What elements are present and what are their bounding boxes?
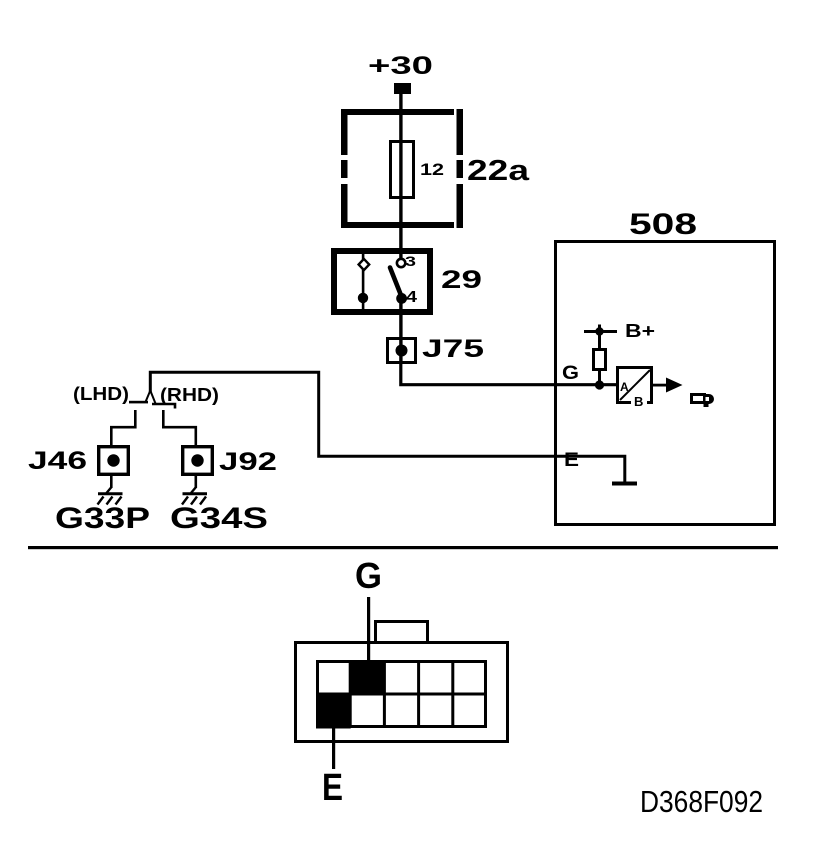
svg-text:E: E [322,767,343,809]
svg-text:B: B [634,394,643,409]
wire J46 to ground G33P [110,476,113,488]
svg-text:E: E [564,450,579,471]
connector J92 box [183,447,213,475]
output arrow [666,378,683,393]
fuse box 22a dashed border left [341,109,348,228]
sensor box U (fuel gauge unit) [618,368,652,403]
pin E filled cell [316,694,351,729]
fuse box 22a dashed border bottom [341,222,463,228]
svg-text:A: A [620,380,629,394]
svg-text:J92: J92 [219,448,277,476]
wire through J75 [399,339,402,363]
svg-text:J75: J75 [422,335,484,363]
switch contact 4 dot [396,293,407,304]
sensor label B knockout [631,395,647,406]
ground bar in 508 [612,482,637,486]
ground G33P symbol [98,487,123,505]
node G junction dot [595,380,604,389]
svg-text:3: 3 [405,253,416,269]
connector body [296,643,508,742]
svg-text:(LHD): (LHD) [73,384,129,404]
sensor diagonal arrow [620,370,650,400]
switch contact 3 circle [397,259,405,267]
connector J75 box [388,339,416,363]
svg-text:G: G [562,363,579,384]
svg-text:12: 12 [420,160,444,179]
sensor output wire [651,384,668,387]
B+ terminal dot [595,327,603,335]
RHD underline with hook [152,404,175,409]
svg-text:G34S: G34S [170,502,268,535]
ground G34S symbol [182,487,207,505]
RHD branch wire [163,410,196,446]
wire J92 to ground G34S [195,476,198,488]
connector J46 box [99,447,129,475]
switch left contact dot [358,293,368,303]
caret LHD/RHD selector [146,391,156,404]
wire E net: caret up, across, down, into 508 [150,372,625,482]
switch box 29 [334,251,430,312]
wire contact 4 to J75 [399,303,402,339]
switch blade 3-4 [390,268,402,298]
svg-text:+30: +30 [368,52,433,80]
svg-text:D368F092: D368F092 [640,784,763,819]
svg-text:J46: J46 [28,447,87,475]
svg-text:22a: 22a [467,155,530,187]
connector tab [376,622,428,643]
battery terminal square [394,83,411,94]
svg-text:G33P: G33P [55,502,150,535]
B+ rail wire [584,330,617,333]
svg-text:29: 29 [441,266,482,294]
connector J75 dot [396,345,408,357]
LHD underline [129,401,148,404]
pin G filled cell [350,660,385,695]
connector J92 dot [191,454,203,466]
pin grid [317,661,486,727]
LHD branch wire [111,410,135,446]
fuse box 22a dashed border right [457,109,464,228]
switch left terminal diamond [359,259,370,270]
svg-text:(RHD): (RHD) [160,385,219,405]
svg-text:B+: B+ [625,321,655,341]
connector J46 dot [107,454,119,466]
svg-text:508: 508 [629,208,697,241]
wire resistor to node G [598,370,601,384]
resistor [594,350,606,370]
wire G to pin [367,597,370,663]
wire +30 to switch 29 [399,94,402,259]
wire B+ to resistor [598,333,601,349]
wire J75 to node G [401,362,617,385]
box 508 [556,242,775,525]
separator rule [28,546,778,549]
switch left pole wire [362,254,365,309]
gauge icon [692,394,715,407]
fuse box 22a dashed border top [341,109,463,115]
wire pin E to label [332,728,335,769]
svg-text:G: G [355,555,382,596]
svg-text:4: 4 [406,289,417,306]
fuse F12 [391,142,414,198]
